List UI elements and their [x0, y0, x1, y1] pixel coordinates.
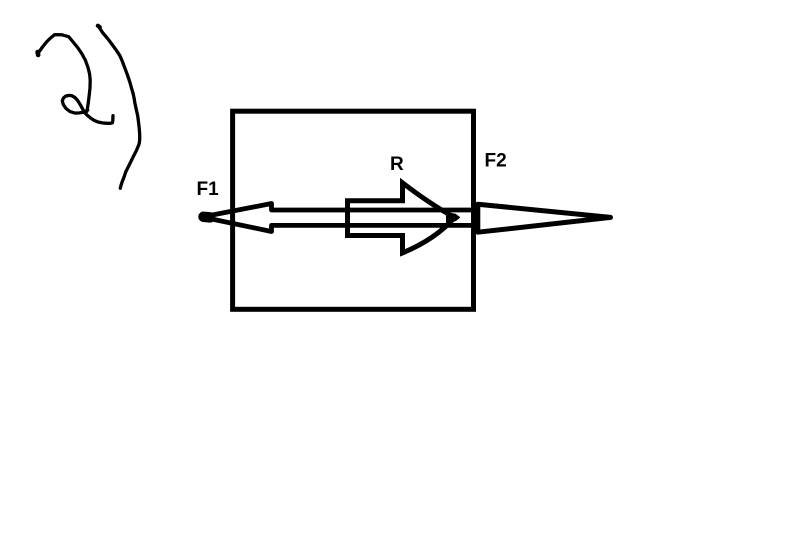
arrow R (block arrow pointing right): [348, 183, 455, 253]
handwritten numeral 2 start blob: [35, 52, 40, 55]
handwritten parenthesis start blob: [98, 26, 100, 28]
box (rectangle): [233, 111, 474, 309]
handwritten numeral 2: [38, 35, 90, 112]
arrow F2 (long thin triangle pointing right): [478, 204, 611, 232]
svg-text:R: R: [390, 154, 404, 175]
handwritten numeral 2 loop and tail: [62, 95, 113, 123]
arrow F1 tip blob: [204, 212, 211, 223]
handwritten closing parenthesis: [99, 26, 140, 188]
arrow F1 (long thin arrow pointing left, shaft across box): [202, 204, 478, 232]
svg-text:F2: F2: [485, 151, 507, 172]
svg-text:F1: F1: [197, 179, 220, 200]
arrow R tip blob: [447, 213, 460, 223]
